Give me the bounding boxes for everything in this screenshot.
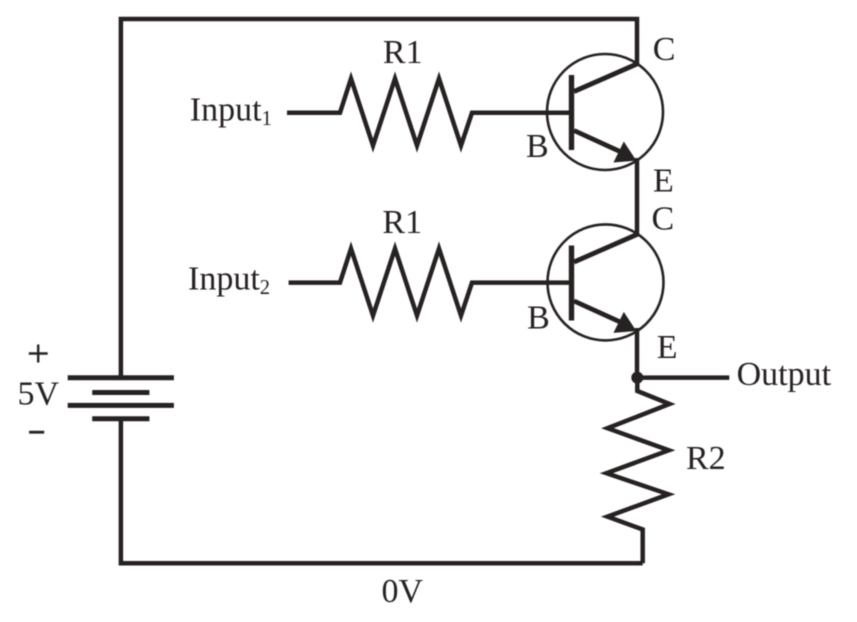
Q1 emitter arrowhead [615,143,635,162]
wire top loop: battery + to top rail to Q1 collector [121,19,637,378]
svg-text:R2: R2 [686,440,726,477]
svg-text:C: C [653,31,676,68]
svg-text:E: E [653,163,674,200]
resistor R2 (vertical) with leads [607,378,670,564]
resistor R1 (bottom) with leads [289,249,569,316]
Q1 collector line [574,64,638,92]
Q1 circle [547,54,663,170]
resistor R1 (top) with leads [287,79,569,146]
svg-text:Input2: Input2 [188,261,270,299]
svg-text:Output: Output [737,356,832,393]
Q2 emitter arrowhead [615,313,635,332]
svg-text:E: E [657,329,678,366]
svg-text:C: C [652,201,675,238]
Q1 emitter line [574,131,622,153]
Q2 emitter line [574,301,622,323]
battery long plate 1 [68,375,174,380]
battery short plate 2 [92,390,149,395]
Q2 circle [548,224,664,340]
Q1 base bar [569,75,574,150]
svg-text:R1: R1 [383,34,423,71]
Q2 collector line [574,234,638,262]
battery short plate 4 [92,416,149,421]
node: output junction dot [631,372,643,384]
svg-text:5V: 5V [18,376,60,413]
wire Q2 emitter to output node [635,328,640,378]
svg-text:R1: R1 [382,204,422,241]
Q2 base bar [569,246,574,321]
label &#8722; (battery negative) [29,431,44,434]
svg-text:0V: 0V [382,573,424,610]
wire Q1 emitter to Q2 collector [635,158,640,236]
battery B1 (5V) [68,378,174,419]
svg-text:B: B [526,128,549,165]
label + (battery positive) [29,345,48,363]
svg-text:Input1: Input1 [190,92,272,130]
transistor Q1 [547,54,663,170]
transistor Q2 [548,224,664,340]
svg-text:B: B [527,300,550,337]
battery long plate 3 [68,403,174,408]
wire output lead [637,375,729,380]
wire bottom loop: battery - down to 0V rail [121,419,643,564]
